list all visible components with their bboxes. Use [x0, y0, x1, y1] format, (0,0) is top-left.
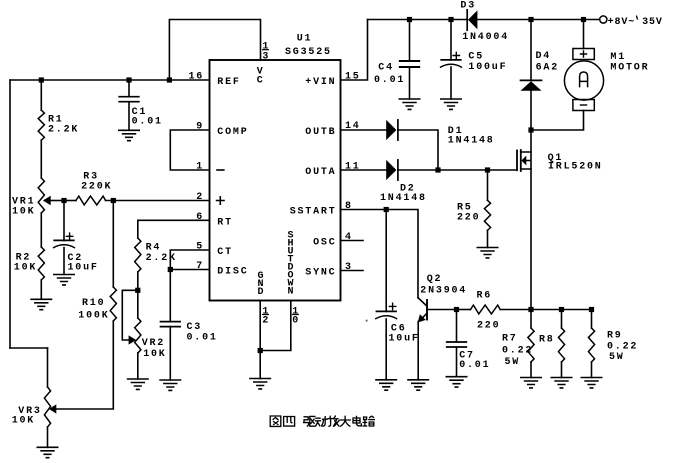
wire R7 top lead: [530, 310, 532, 329]
wire R10 top lead: [112, 201, 114, 288]
svg-text:10uF: 10uF: [68, 263, 99, 274]
wire OSC pin 4 stub: [341, 240, 364, 242]
wire left rail vertical: [9, 80, 11, 348]
node rail-C4: [407, 17, 412, 22]
ground C3: [160, 380, 180, 390]
node rail-C5: [448, 17, 453, 22]
svg-text:1N4148: 1N4148: [380, 193, 427, 204]
wire VR1 to R2: [40, 213, 42, 247]
svg-text:1N4004: 1N4004: [462, 32, 509, 43]
resistor R8: [539, 328, 565, 362]
svg-text:OSC: OSC: [313, 238, 336, 249]
node rail-R8: [559, 307, 564, 312]
svg-text:D: D: [257, 287, 265, 298]
node R4-VR2 wiper: [135, 288, 140, 293]
resistor R1: [38, 110, 79, 140]
wire CT pin 5: [170, 250, 209, 270]
diode D4 6A2: [521, 51, 560, 91]
svg-text:10K: 10K: [12, 207, 35, 218]
resistor R2: [14, 247, 45, 280]
svg-text:DISC: DISC: [217, 267, 248, 278]
ground R7: [521, 378, 541, 388]
wire M1 top lead: [583, 20, 585, 49]
ground U1: [250, 379, 270, 389]
svg-text:R6: R6: [477, 290, 493, 301]
wire R9 top lead: [591, 310, 593, 329]
svg-text:CT: CT: [217, 247, 233, 258]
wire COMP to pin1 feedback: [170, 130, 209, 170]
wire R5 bottom lead: [487, 230, 489, 247]
svg-text:0.01: 0.01: [459, 360, 490, 371]
wire D1 cathode to OUTA net: [398, 130, 438, 170]
ground R2: [31, 299, 51, 309]
wire R1 top lead: [40, 80, 42, 110]
wire SSTART pin 8: [341, 210, 419, 298]
svg-text:SYNC: SYNC: [305, 268, 336, 279]
wire node to R3: [64, 200, 76, 202]
svg-text:2N3904: 2N3904: [420, 285, 467, 296]
node R3-R10: [111, 198, 116, 203]
svg-text:Q2: Q2: [427, 274, 443, 285]
wire top rail left of D3: [368, 19, 468, 21]
svg-text:R10: R10: [82, 298, 105, 309]
wire OUTA pin 11: [341, 169, 387, 171]
wire R8 bottom lead: [561, 362, 563, 378]
svg-text:9: 9: [196, 122, 204, 133]
svg-text:R8: R8: [539, 334, 555, 345]
svg-text:0: 0: [292, 315, 300, 326]
svg-text:220: 220: [477, 321, 500, 332]
wire node to R6: [457, 309, 471, 311]
potentiometer VR3: [12, 387, 57, 427]
resistor R9: [588, 328, 638, 363]
svg-text:+8V~ 35V: +8V~ 35V: [608, 17, 663, 28]
potentiometer VR2: [129, 318, 167, 360]
resistor R3: [76, 171, 112, 205]
resistor R5: [457, 200, 491, 230]
capacitor C1: [119, 97, 163, 128]
wire R8 top lead: [561, 310, 563, 329]
svg-text:RT: RT: [217, 217, 233, 228]
ground R5: [477, 248, 497, 258]
svg-text:2.2K: 2.2K: [146, 253, 177, 264]
svg-text:1: 1: [196, 162, 204, 173]
svg-text:2: 2: [196, 192, 204, 203]
svg-text:0.01: 0.01: [187, 333, 218, 344]
potentiometer VR1: [12, 178, 51, 218]
stray dot: [366, 320, 368, 322]
node CT-DISC-C3: [168, 267, 173, 272]
wire U1 pin 10 stub: [260, 301, 291, 351]
svg-text:C4: C4: [378, 63, 394, 74]
resistor R6: [471, 290, 501, 331]
svg-text:3: 3: [345, 262, 353, 273]
wire D4 anode to Q1 drain: [530, 91, 532, 152]
svg-text:8: 8: [345, 201, 353, 212]
wire C7 top lead: [456, 310, 458, 343]
svg-text:M1: M1: [610, 52, 626, 63]
svg-text:6A2: 6A2: [536, 63, 559, 74]
svg-text:6: 6: [196, 212, 204, 223]
svg-text:D4: D4: [536, 51, 552, 62]
wire C5 bottom lead: [450, 67, 452, 99]
svg-text:3: 3: [262, 51, 270, 62]
SHUTDOWN label inside U1: [287, 231, 295, 298]
wire VR1 wiper: [51, 200, 64, 202]
wire U1 pin 12 stub: [259, 301, 261, 351]
svg-text:0.01: 0.01: [374, 75, 405, 86]
svg-text:0.22: 0.22: [607, 341, 638, 352]
node D4-M1-Q1: [528, 127, 533, 132]
capacitor C3: [161, 322, 218, 344]
node VR1 wiper / C2 / R3: [61, 198, 66, 203]
wire OUTB pin 14: [341, 129, 387, 131]
wire C1 bottom lead: [128, 102, 130, 131]
wire R4 to VR2: [137, 272, 139, 318]
svg-text:IRL520N: IRL520N: [548, 162, 603, 173]
terminal +8V~35V: [600, 16, 663, 28]
diode D3 1N4004: [460, 1, 509, 44]
svg-text:REF: REF: [217, 77, 240, 88]
svg-text:11: 11: [345, 162, 361, 173]
ground VR2: [128, 379, 148, 389]
svg-text:10uF: 10uF: [389, 333, 420, 344]
wire C4 top lead: [409, 20, 411, 62]
svg-text:100K: 100K: [78, 311, 109, 322]
svg-text:R9: R9: [607, 331, 623, 342]
wire R2 bottom lead: [40, 280, 42, 299]
wire Q2 emitter lead: [417, 322, 419, 380]
svg-text:SSTART: SSTART: [290, 207, 337, 218]
svg-text:U1: U1: [297, 33, 313, 44]
wire R10 to VR3 wiper row: [56, 321, 113, 409]
svg-text:7: 7: [196, 261, 204, 272]
transistor Q1 IRL520N: [517, 150, 603, 173]
svg-text:16: 16: [188, 72, 204, 83]
svg-text:2.2K: 2.2K: [48, 125, 79, 136]
wire C7 bottom lead: [456, 347, 458, 377]
wire Q1 source down: [530, 169, 532, 310]
resistor R10: [78, 287, 116, 322]
wire C2 top lead: [63, 201, 65, 241]
capacitor C4: [374, 61, 419, 86]
svg-text:4: 4: [345, 232, 353, 243]
resistor R7: [502, 328, 534, 368]
ground C5: [441, 99, 461, 109]
capacitor C5: [441, 52, 508, 73]
svg-text:10K: 10K: [14, 263, 37, 274]
wire C2 bottom lead: [63, 248, 65, 275]
svg-text:COMP: COMP: [217, 127, 248, 138]
wire DISC pin 7: [170, 269, 209, 271]
svg-text:C: C: [257, 75, 265, 86]
ground R8: [551, 378, 571, 388]
ground VR3: [37, 447, 57, 457]
wire R6 to sense rail: [500, 309, 591, 311]
svg-text:N: N: [287, 287, 295, 298]
ground C7: [446, 377, 466, 387]
svg-text:220K: 220K: [81, 182, 112, 193]
svg-text:MOTOR: MOTOR: [610, 63, 649, 74]
wire gate net: [398, 169, 517, 171]
wire C4 bottom lead: [409, 67, 411, 99]
svg-text:10K: 10K: [12, 415, 35, 426]
pin 1 minus label inside U1: [217, 169, 224, 171]
svg-text:0.22: 0.22: [502, 346, 533, 357]
wire R5 top lead: [487, 170, 489, 200]
wire R7 bottom lead: [530, 362, 532, 378]
ground R9: [581, 378, 601, 388]
pin 10 label: [292, 306, 300, 326]
wire C6 bottom lead: [385, 319, 387, 380]
node gate-R5: [485, 167, 490, 172]
node rail-R9: [589, 307, 594, 312]
svg-text:D3: D3: [460, 1, 476, 12]
svg-text:0.01: 0.01: [132, 117, 163, 128]
node D1-D2: [435, 167, 440, 172]
wire VR3 bottom lead: [47, 427, 49, 447]
svg-text:1N4148: 1N4148: [448, 136, 495, 147]
node rail-M1: [581, 17, 586, 22]
wire C1 top lead: [128, 80, 130, 97]
ground C1: [119, 130, 139, 140]
wire D4 cathode lead: [530, 20, 532, 81]
wire C5 top lead: [450, 20, 452, 60]
wire +VIN pin 15 riser: [341, 20, 368, 81]
pin 12 label: [262, 306, 270, 326]
svg-text:VR2: VR2: [142, 338, 165, 349]
wire RT pin 6: [138, 220, 210, 238]
wire U1 ground lead: [259, 351, 261, 379]
node rail-D4: [528, 17, 533, 22]
node rail-R7-Q1 source: [528, 307, 533, 312]
wire C3 bottom lead: [169, 327, 171, 380]
ground C6: [376, 380, 396, 390]
node SSTART-C6: [384, 207, 389, 212]
capacitor C7: [447, 342, 491, 371]
wire R1 to VR1: [40, 140, 42, 178]
svg-text:100uF: 100uF: [468, 62, 507, 73]
svg-text:15: 15: [345, 72, 361, 83]
wire VR3 top lead: [47, 348, 49, 387]
capacitor C6: [376, 303, 420, 344]
wire C6 top lead: [385, 210, 387, 312]
node base-C7-R6: [454, 307, 459, 312]
wire VR2 wiper jog: [122, 290, 138, 340]
capacitor C2: [54, 233, 99, 274]
svg-text:+VIN: +VIN: [305, 77, 336, 88]
svg-text:220: 220: [457, 213, 480, 224]
motor M1: [564, 49, 649, 111]
pin 2 plus label inside U1: [217, 197, 224, 204]
node REF-riser: [167, 77, 172, 82]
svg-text:SG3525: SG3525: [285, 47, 332, 58]
wire Q2 base to node: [427, 309, 457, 311]
diode D2 1N4148: [380, 160, 427, 204]
caption figure 4 drive amplifier circuit: [270, 416, 374, 426]
svg-text:R4: R4: [146, 242, 162, 253]
wire R9 bottom lead: [591, 362, 593, 378]
diode D1 1N4148: [386, 120, 494, 147]
svg-text:5: 5: [196, 242, 204, 253]
wire SYNC pin 3 stub: [341, 270, 364, 272]
wire REF rail horizontal: [10, 79, 210, 81]
wire C3 top lead: [169, 270, 171, 322]
node REF-C1: [126, 77, 131, 82]
GND label inside U1: [257, 271, 265, 298]
op-amp U1 SG3525 IC body: [210, 33, 341, 300]
wire top rail right of D3: [477, 19, 599, 21]
wire VR2 bottom lead: [137, 353, 139, 379]
node pin12-pin10: [258, 348, 263, 353]
svg-text:OUTB: OUTB: [305, 127, 336, 138]
svg-text:C3: C3: [187, 322, 203, 333]
wire left rail to VR3: [10, 347, 48, 349]
svg-text:10K: 10K: [143, 349, 166, 360]
svg-text:2: 2: [262, 315, 270, 326]
node REF-R1: [39, 77, 44, 82]
svg-text:5W: 5W: [505, 357, 521, 368]
svg-text:OUTA: OUTA: [305, 167, 336, 178]
svg-text:R7: R7: [502, 334, 518, 345]
pin 13 label: [262, 42, 270, 63]
ground C4: [399, 99, 419, 109]
wire R3 to U1 pin 2: [106, 200, 210, 202]
wire REF to VC riser: [169, 20, 260, 81]
ground Q2: [408, 380, 428, 390]
transistor Q2 2N3904: [418, 274, 468, 322]
resistor R4: [135, 238, 177, 272]
svg-text:5W: 5W: [609, 352, 625, 363]
wire M1 bottom lead: [531, 111, 584, 131]
ground C2: [54, 275, 74, 285]
